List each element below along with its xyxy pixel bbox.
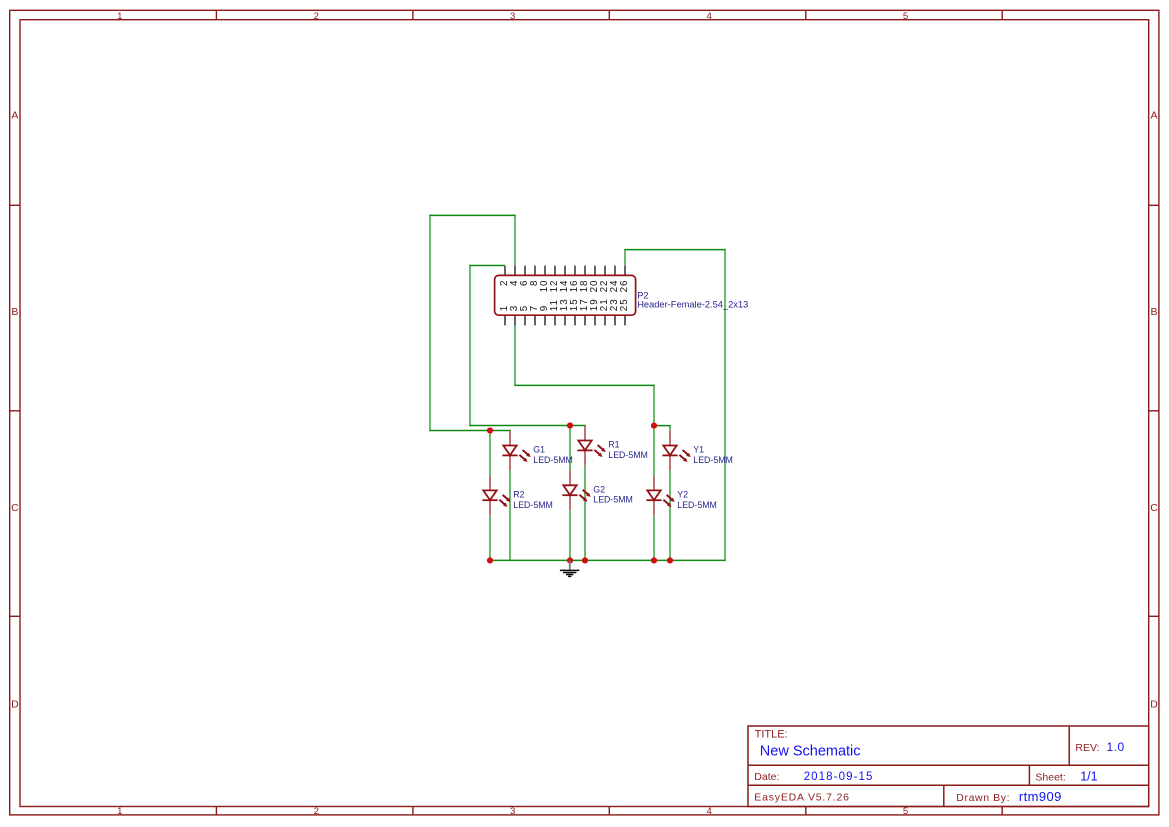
- pin 10: [544, 266, 546, 276]
- svg-text:G2: G2: [593, 484, 605, 494]
- junction at Y1 cathode: [667, 557, 673, 563]
- svg-text:1: 1: [117, 806, 122, 817]
- wire G2 anode drop: [569, 426, 571, 471]
- wire net1 left vertical: [429, 215, 431, 432]
- wire net1 lower horizontal: [429, 430, 511, 432]
- pin 2: [504, 266, 506, 276]
- pin 22: [604, 266, 606, 276]
- svg-text:Sheet:: Sheet:: [1035, 771, 1065, 783]
- svg-text:1.0: 1.0: [1107, 740, 1125, 754]
- svg-text:A: A: [1150, 110, 1157, 122]
- wire Y1 cathode: [669, 470, 671, 560]
- svg-text:TITLE:: TITLE:: [755, 729, 788, 741]
- svg-text:LED-5MM: LED-5MM: [513, 500, 553, 510]
- pin 8: [534, 266, 536, 276]
- pin 14: [564, 266, 566, 276]
- pin 3: [514, 315, 516, 325]
- wire net1 top horizontal: [429, 214, 515, 216]
- LED G2: [562, 470, 632, 510]
- svg-text:R2: R2: [513, 489, 524, 499]
- LED G1: [502, 431, 572, 471]
- svg-text:4: 4: [707, 806, 713, 817]
- svg-text:LED-5MM: LED-5MM: [677, 500, 717, 510]
- pin 4: [514, 266, 516, 276]
- svg-text:Date:: Date:: [754, 771, 779, 783]
- junction at R2 cathode / bottom bus: [487, 557, 493, 563]
- svg-text:3: 3: [510, 11, 515, 22]
- pin 9: [544, 315, 546, 325]
- pin 7: [534, 315, 536, 325]
- wire Y2 cathode: [653, 515, 655, 560]
- wire Y1 anode stub: [669, 426, 671, 431]
- pin 11: [554, 315, 556, 325]
- wire bottom bus: [489, 559, 725, 561]
- wire net3 right vertical: [653, 385, 655, 426]
- svg-text:LED-5MM: LED-5MM: [693, 455, 733, 465]
- svg-text:26: 26: [619, 280, 630, 293]
- svg-text:2018-09-15: 2018-09-15: [804, 771, 874, 783]
- svg-text:2: 2: [314, 11, 319, 22]
- svg-text:G1: G1: [533, 445, 545, 455]
- SCHEMATIC: [429, 215, 725, 560]
- wire net4 right vertical: [724, 249, 726, 561]
- LED R1: [577, 426, 647, 466]
- wire net4 top horizontal: [624, 249, 725, 251]
- svg-text:C: C: [1150, 502, 1158, 514]
- wire net3 stub to Y1: [653, 425, 670, 427]
- svg-text:5: 5: [903, 11, 908, 22]
- wire net2 horizontal: [469, 425, 586, 427]
- svg-text:5: 5: [903, 806, 908, 817]
- pin 25: [624, 315, 626, 325]
- pin 15: [574, 315, 576, 325]
- wire R2 anode drop: [489, 431, 491, 476]
- svg-text:LED-5MM: LED-5MM: [593, 495, 633, 505]
- svg-text:B: B: [1150, 306, 1157, 318]
- svg-text:2: 2: [314, 806, 319, 817]
- svg-text:B: B: [11, 306, 18, 318]
- junction at R2 anode tap: [487, 427, 493, 433]
- svg-text:New Schematic: New Schematic: [760, 744, 861, 760]
- pin 5: [524, 315, 526, 325]
- wire net3 horizontal: [514, 384, 654, 386]
- wire pin2 horizontal: [469, 265, 505, 267]
- svg-text:C: C: [11, 502, 19, 514]
- svg-text:1/1: 1/1: [1080, 770, 1097, 784]
- junction at Y2 anode tap: [651, 423, 657, 429]
- svg-text:REV:: REV:: [1075, 742, 1099, 754]
- pin 18: [584, 266, 586, 276]
- wire G1 cathode: [509, 470, 511, 560]
- svg-text:D: D: [11, 698, 19, 710]
- pin 20: [594, 266, 596, 276]
- wire pin4 up: [514, 215, 516, 266]
- svg-text:Drawn By:: Drawn By:: [956, 792, 1010, 804]
- junction at Y2 cathode: [651, 557, 657, 563]
- pin 19: [594, 315, 596, 325]
- pin 1: [504, 315, 506, 325]
- pin 17: [584, 315, 586, 325]
- wire net2 left vertical: [469, 265, 471, 426]
- svg-text:1: 1: [117, 11, 122, 22]
- svg-text:Y1: Y1: [693, 445, 704, 455]
- ground: [560, 560, 579, 576]
- wire pin3 down: [514, 325, 516, 386]
- svg-text:D: D: [1150, 698, 1158, 710]
- wire G2 cathode: [569, 510, 571, 560]
- TITLE BLOCK: [748, 726, 1149, 807]
- wire pin26 up: [624, 249, 626, 266]
- svg-text:A: A: [11, 110, 18, 122]
- pin 13: [564, 315, 566, 325]
- junction at R1 cathode: [582, 557, 588, 563]
- pin 23: [614, 315, 616, 325]
- LED Y2: [646, 475, 716, 515]
- LED Y1: [662, 431, 732, 471]
- LED R2: [482, 475, 552, 515]
- pin 12: [554, 266, 556, 276]
- svg-text:4: 4: [707, 11, 713, 22]
- pin 6: [524, 266, 526, 276]
- pin 21: [604, 315, 606, 325]
- svg-text:EasyEDA V5.7.26: EasyEDA V5.7.26: [754, 791, 849, 803]
- junction at G2 cathode / ground: [567, 557, 573, 563]
- connector P2 (Header-Female-2.54_2x13): [495, 266, 749, 326]
- svg-text:Y2: Y2: [677, 489, 688, 499]
- P2 body: [495, 275, 636, 315]
- svg-text:R1: R1: [608, 440, 619, 450]
- junction at G2 anode tap: [567, 422, 573, 428]
- pin 16: [574, 266, 576, 276]
- svg-text:LED-5MM: LED-5MM: [608, 450, 648, 460]
- pin 26: [624, 266, 626, 276]
- svg-text:3: 3: [510, 806, 515, 817]
- svg-text:rtm909: rtm909: [1019, 789, 1062, 804]
- svg-text:Header-Female-2.54_2x13: Header-Female-2.54_2x13: [637, 299, 748, 309]
- wire R1 cathode: [584, 465, 586, 560]
- svg-text:25: 25: [619, 298, 630, 311]
- svg-text:LED-5MM: LED-5MM: [533, 455, 573, 465]
- pin 24: [614, 266, 616, 276]
- wire Y2 anode drop: [653, 426, 655, 476]
- wire R2 cathode: [489, 515, 491, 560]
